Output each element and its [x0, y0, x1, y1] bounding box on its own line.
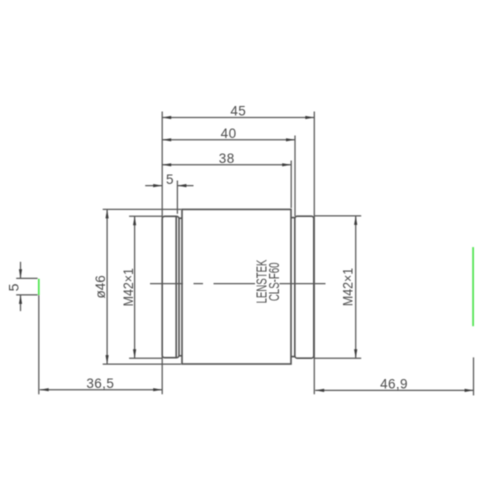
- svg-text:36,5: 36,5: [86, 376, 114, 391]
- svg-text:40: 40: [221, 126, 237, 141]
- svg-text:38: 38: [219, 151, 235, 166]
- svg-text:M42×1: M42×1: [120, 268, 136, 306]
- svg-text:M42×1: M42×1: [340, 268, 356, 306]
- svg-text:5: 5: [166, 172, 174, 187]
- svg-text:5: 5: [6, 283, 22, 291]
- svg-text:CLS-F60: CLS-F60: [266, 262, 283, 301]
- svg-text:ø46: ø46: [93, 275, 108, 298]
- svg-text:46,9: 46,9: [380, 376, 408, 391]
- svg-text:45: 45: [230, 104, 246, 119]
